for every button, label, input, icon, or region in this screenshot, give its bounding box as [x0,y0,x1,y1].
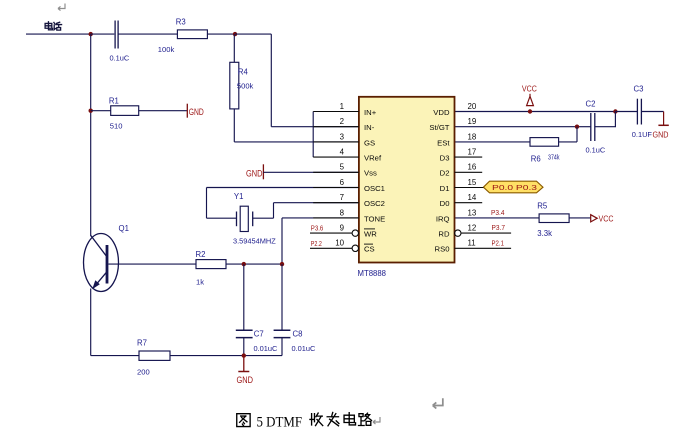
svg-text:14: 14 [468,193,477,202]
label R1 [109,97,119,106]
junction: C7 top node [242,262,246,266]
wire: pin18 ESt to R6 [455,141,531,143]
pin number 7 (left) [340,193,344,202]
pin name St/GT [429,123,449,132]
wire: C8 top lead [281,264,283,329]
wire: ground to pin5 [263,171,359,173]
pin name OSC1 [364,184,385,193]
junction: R1 node [89,109,93,113]
svg-text:VDD: VDD [433,108,450,117]
wire: St/GT node down to R6 [559,127,577,142]
value 3.59454MHZ [233,237,276,246]
pin number 8 (left) [340,208,345,217]
pin 6 stub [313,187,359,189]
junction: C3 tap [613,109,617,113]
pin number 2 (left) [340,117,344,126]
svg-text:R6: R6 [531,154,541,163]
label C2 [586,100,596,109]
svg-text:R4: R4 [238,67,249,76]
node P3.4 (pin13) [491,210,505,217]
label R2 [196,250,206,259]
svg-text:0.1uC: 0.1uC [110,54,130,63]
svg-text:18: 18 [468,132,477,141]
svg-text:P2.1: P2.1 [492,240,505,247]
svg-text:Y1: Y1 [234,192,244,201]
transistor Q1 [84,234,119,292]
svg-text:D2: D2 [440,169,450,178]
svg-text:17: 17 [468,148,477,157]
value 510 [110,121,123,130]
pin name Vss [364,169,377,178]
pin 7 stub [313,202,359,204]
pin 2 stub [313,126,359,128]
svg-text:4: 4 [340,148,345,157]
pin name OSC2 [364,199,385,208]
svg-text:TONE: TONE [364,214,385,223]
value 200 [137,367,150,376]
capacitor C1 0.1uF (series input cap) [115,21,118,49]
wire: to pin2 IN- [271,126,359,128]
svg-text:C3: C3 [634,85,644,94]
junction: phone node [89,32,93,36]
bus flag P0.0 P0.3 on pin15 [483,181,543,193]
resistor R5 [539,214,569,223]
pin number 16 (right) [468,163,477,172]
svg-text:GS: GS [364,138,375,147]
svg-text:8: 8 [340,208,345,217]
svg-text:CS: CS [364,245,375,254]
svg-text:1: 1 [340,102,344,111]
pin number 3 (left) [340,132,345,141]
label Q1 [119,224,129,233]
resistor R2 [196,260,226,269]
svg-text:OSC2: OSC2 [364,199,385,208]
capacitor C3 [637,99,641,125]
pin number 10 (left) [335,239,344,248]
svg-text:VCC: VCC [599,214,614,224]
pin number 13 (right) [468,208,477,217]
junction: ground node bottom [242,353,246,357]
pin name D3 [440,154,450,163]
label C7 [254,330,264,339]
svg-text:R3: R3 [176,18,186,27]
svg-text:1k: 1k [196,277,204,286]
svg-text:3.3k: 3.3k [537,229,552,238]
pin 16 stub [455,171,483,173]
value 500k [237,81,254,90]
wire: vertical phone node down to Q1 [90,34,92,236]
svg-text:3.59454MHZ: 3.59454MHZ [233,237,276,246]
junction: St/GT node [575,125,579,129]
pin name RS0 [435,245,450,254]
caption: 图 5 DTMF 收发电路 [237,412,372,430]
svg-text:19: 19 [468,117,477,126]
power symbol VCC (top) [522,83,537,105]
svg-text:R7: R7 [137,339,147,348]
wire: pin13 IRQ to R5 [455,217,540,219]
svg-text:VCC: VCC [522,83,537,93]
pin name RD [438,230,450,239]
pin number 18 (right) [468,132,477,141]
svg-text:RS0: RS0 [435,245,450,254]
pin number 5 (left) [340,163,345,172]
pin name IRQ [436,214,450,223]
op-amp/IC U1 MT8888 body [359,97,455,263]
wire: C3 right plate to ground [641,112,663,126]
node P2.1 (pin11) [492,240,505,247]
wire: R4 top lead [233,34,235,62]
svg-text:Vss: Vss [364,169,377,178]
pin 4 stub [313,156,359,158]
wire: C8 bottom lead [281,338,283,356]
pin name IN- [364,123,375,132]
junction: VCC tap on pin20 rail [528,109,532,113]
svg-text:9: 9 [340,224,345,233]
node P3.7 (pin12) [492,225,506,232]
pin 12 stub with bubble (RD) [455,230,512,236]
value 374k [548,152,560,161]
pin number 19 (right) [468,117,477,126]
ground symbol bottom [237,356,254,385]
value 0.1UF (C3) [632,130,653,139]
pin 15 stub [455,187,484,189]
pin number 1 (left) [340,102,344,111]
svg-text:GND: GND [246,169,263,179]
wire: C7 top lead [243,264,245,329]
wire: pin1/pin4 bias bracket [312,112,314,158]
svg-text:D1: D1 [440,184,450,193]
label Y1 [234,192,244,201]
pin 8 stub [313,217,359,219]
svg-text:RD: RD [438,230,450,239]
pin 3 stub [313,141,359,143]
capacitor C7 [236,330,253,337]
label C8 [293,330,303,339]
wire: R2 to C7/C8 nodes [226,263,282,265]
junction: TONE/C8 node [280,262,284,266]
value 100k [158,45,175,54]
wire: R1 to ground bar [139,110,188,112]
resistor R7 [139,351,170,360]
svg-text:P3.7: P3.7 [492,225,506,232]
resistor R3 [177,30,207,39]
svg-text:D3: D3 [440,154,450,163]
svg-text:IRQ: IRQ [436,214,450,223]
pin number 11 (right) [468,239,476,248]
svg-text:VRef: VRef [364,154,382,163]
wire: C7 bottom lead [243,338,245,356]
svg-text:0.01uC: 0.01uC [292,344,316,353]
wire: C2 right plate up to pin20 rail [595,112,616,127]
pin 1 stub [313,111,359,113]
svg-text:15: 15 [468,178,477,187]
resistor R4 500k (vertical) [230,62,239,109]
wire: R4 bottom to pin3 GS [234,109,359,142]
pin number 20 (right) [468,102,477,111]
pin name WR [364,229,377,239]
value 0.1uC (C2) [586,146,606,155]
pin name ESt [437,138,450,147]
pin name VDD [433,108,450,117]
pin number 9 (left) [340,224,345,233]
ground symbol at C3 [653,125,669,139]
svg-text:16: 16 [468,163,477,172]
svg-text:WR: WR [364,230,377,239]
svg-text:510: 510 [110,121,123,130]
ground symbol at R1 [187,104,204,118]
pin name TONE [364,214,385,223]
label C3 [634,85,644,94]
svg-text:374k: 374k [548,152,560,161]
pin 10 stub with bubble (CS) [310,245,358,251]
paragraph mark top-left [58,4,65,11]
pin number 15 (right) [468,178,477,187]
capacitor C2 [591,113,595,141]
svg-text:13: 13 [468,208,477,217]
pin name D2 [440,169,450,178]
capacitor C8 [274,330,291,337]
svg-text:100k: 100k [158,45,175,54]
svg-text:5: 5 [340,163,345,172]
svg-text:20: 20 [468,102,477,111]
svg-text:500k: 500k [237,81,254,90]
pin 17 stub [455,156,483,158]
pin 5 stub [313,171,359,173]
svg-text:GND: GND [653,129,669,139]
svg-text:Q1: Q1 [119,224,129,233]
svg-text:0.01uC: 0.01uC [254,344,278,353]
pin name D1 [440,184,450,193]
svg-text:D0: D0 [440,199,450,208]
value 0.01uC (C7) [254,344,278,353]
pin name GS [364,138,375,147]
svg-text:GND: GND [237,375,254,385]
crystal Y1 [237,206,253,231]
node P3.6 (pin9) [311,226,324,233]
svg-text:IN+: IN+ [364,108,377,117]
power symbol VCC (right) [591,214,614,224]
svg-text:C7: C7 [254,330,264,339]
svg-text:11: 11 [468,239,476,248]
svg-text:R2: R2 [196,250,206,259]
wire: R7 to C8 bottom [170,355,282,357]
wire: node to R1 [91,110,111,112]
pin name IN+ [364,108,377,117]
pin name D0 [440,199,450,208]
label R7 [137,339,147,348]
label R5 [537,202,548,211]
svg-text:IN-: IN- [364,123,375,132]
wire: pin19 St/GT to C2 [455,126,591,128]
svg-text:MT8888: MT8888 [358,268,387,278]
wire: Q1 emitter down and bottom rail [91,289,139,356]
wire: Q1 base to R2 [108,263,196,265]
svg-text:0.1UF: 0.1UF [632,130,653,139]
wire: pin6 OSC1 to crystal left [207,188,359,219]
pin 9 stub with bubble (WR) [310,230,358,236]
svg-text:7: 7 [340,193,344,202]
svg-text:R1: R1 [109,97,119,106]
svg-text:10: 10 [335,239,344,248]
pin number 6 (left) [340,178,345,187]
paragraph mark after caption [373,417,380,424]
pin number 17 (right) [468,148,477,157]
resistor R6 [530,138,559,147]
resistor R1 [111,106,139,116]
svg-text:0.1uC: 0.1uC [586,146,606,155]
svg-text:P3.6: P3.6 [311,226,324,233]
wire: to C3 left plate [615,111,637,113]
svg-text:GND: GND [189,107,204,117]
wire: pin20 VDD rail [455,111,617,113]
svg-text:St/GT: St/GT [429,123,449,132]
svg-text:C2: C2 [586,100,596,109]
label R4 [238,67,249,76]
value label 0.1uC for C1 [110,54,130,63]
value 3.3k [537,229,552,238]
wire: R3 to R4 top node [207,33,235,35]
pin 14 stub [455,202,483,204]
wire: phone node to C1 [91,33,115,35]
svg-text:200: 200 [137,367,150,376]
label R3 [176,18,186,27]
svg-text:P0.0 P0.3: P0.0 P0.3 [492,185,537,192]
wire: crystal right to pin7 OSC2 [253,203,359,219]
pin number 14 (right) [468,193,477,202]
pin name CS [364,244,375,254]
label MT8888 [358,268,387,278]
pin 11 stub (RS0) [455,247,512,249]
node label 电话 (phone line) [45,22,61,30]
pin name VRef [364,154,382,163]
pin number 4 (left) [340,148,345,157]
value 0.01uC (C8) [292,344,316,353]
wire: pin8 TONE down to R2 node [282,218,359,264]
svg-text:C8: C8 [293,330,303,339]
wire: top node to IN- corner [235,34,271,127]
svg-text:5 DTMF: 5 DTMF [257,415,303,431]
svg-text:6: 6 [340,178,345,187]
node P2.2 (pin10) [311,241,322,248]
wire: C1 to R3 [118,33,177,35]
junction: R4 top node [233,32,237,36]
svg-text:12: 12 [468,224,477,233]
wire: R5 to VCC arrow [569,217,590,219]
svg-text:ESt: ESt [437,138,450,147]
paragraph mark above caption [433,398,443,408]
label R6 [531,154,541,163]
svg-text:P2.2: P2.2 [311,241,322,248]
ground symbol at pin5 Vss [246,164,263,179]
net: phone line input 电话 [26,33,91,35]
svg-text:OSC1: OSC1 [364,184,385,193]
svg-text:2: 2 [340,117,344,126]
svg-text:R5: R5 [537,202,548,211]
value 1k [196,277,204,286]
pin number 12 (right) [468,224,477,233]
svg-text:P3.4: P3.4 [491,210,505,217]
svg-text:3: 3 [340,132,345,141]
